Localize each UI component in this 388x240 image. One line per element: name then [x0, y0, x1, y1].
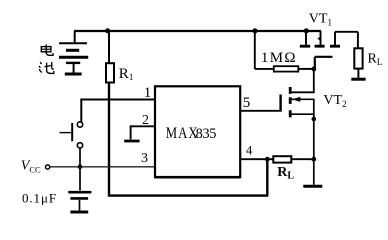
svg-text:MAX: MAX — [166, 125, 199, 143]
svg-text:0.1μF: 0.1μF — [22, 190, 57, 205]
svg-text:R1: R1 — [119, 66, 134, 82]
svg-text:VT1: VT1 — [309, 11, 332, 27]
svg-text:VT2: VT2 — [323, 93, 346, 109]
svg-text:4: 4 — [246, 143, 253, 157]
svg-text:835: 835 — [196, 126, 217, 142]
svg-text:1MΩ: 1MΩ — [261, 50, 297, 66]
svg-text:2: 2 — [142, 113, 149, 128]
svg-text:1: 1 — [144, 85, 152, 101]
svg-text:RL: RL — [277, 165, 294, 182]
svg-text:3: 3 — [141, 151, 148, 166]
svg-text:RL: RL — [368, 52, 383, 68]
svg-text:5: 5 — [243, 95, 251, 111]
svg-text:VCC: VCC — [21, 159, 41, 175]
